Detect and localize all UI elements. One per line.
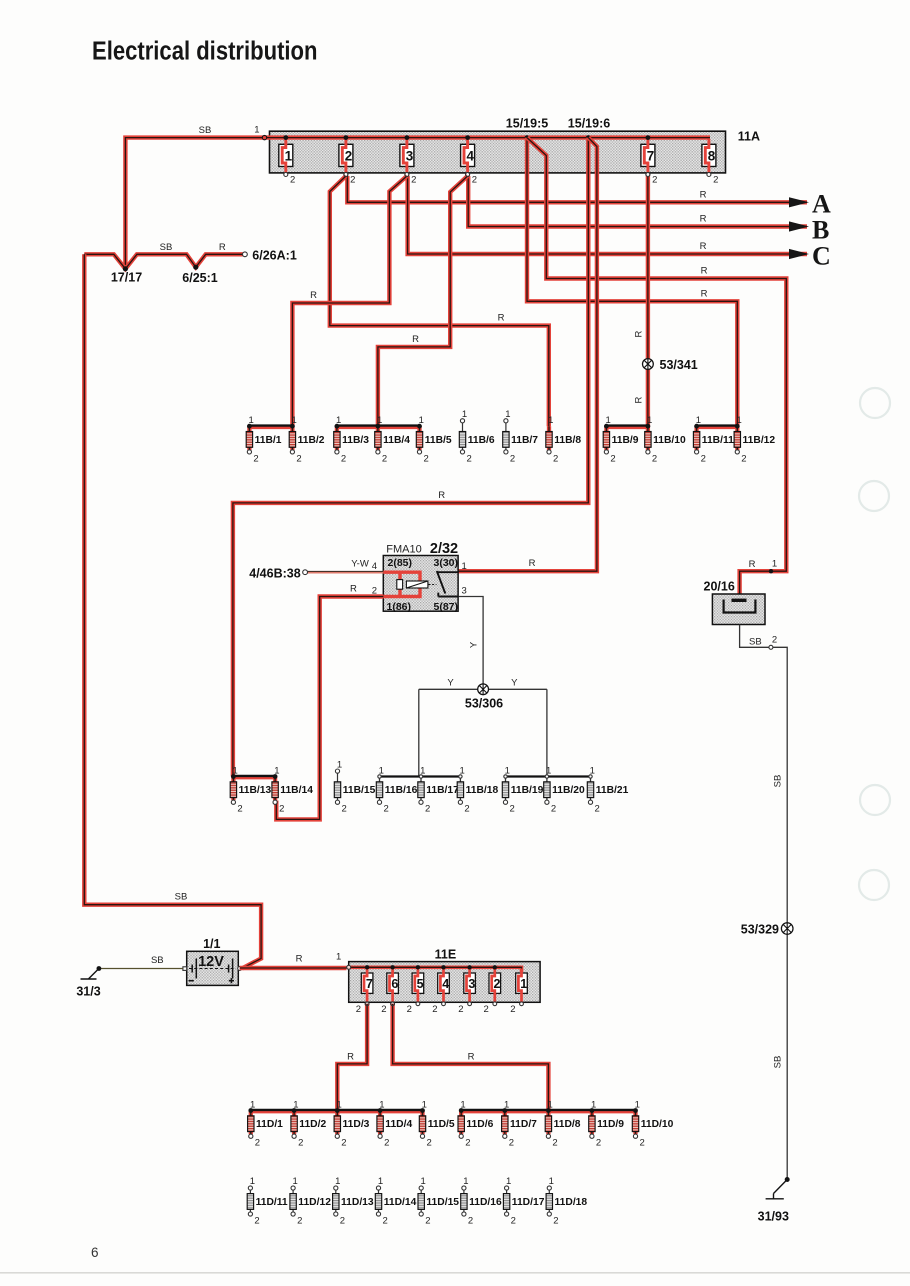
fuse 8 (11A) [702,139,718,186]
svg-text:2: 2 [384,1138,389,1149]
wire label R (wire B) [700,214,707,225]
svg-text:2: 2 [772,635,777,646]
svg-text:1: 1 [506,1176,511,1187]
connector 11B/14 [272,765,313,814]
svg-text:2: 2 [551,804,556,815]
junction at ground 31/3 [97,966,102,971]
wire label R (15/19:5 to 20/16) [701,266,708,277]
connector 11B/17 [418,765,459,814]
wire SB from 20/16 pin 2 to ground 31/93 [740,625,788,1180]
svg-text:2: 2 [467,453,472,464]
wire label R (to 6/26A:1) [219,242,226,253]
svg-text:1: 1 [292,1176,297,1187]
pin 2 circle of fuse 2 (11A) [344,173,348,177]
bottom scan edge line [0,1272,910,1274]
svg-text:11D/16: 11D/16 [469,1197,502,1208]
connector label A [812,190,831,219]
svg-text:11D/17: 11D/17 [512,1197,545,1208]
splice 53/341 [643,359,654,370]
fuse 1 (11E) [510,969,527,1015]
junction 11B/1 pin 1 [247,424,252,429]
connector 11B/10 [645,415,686,464]
junction 11B/3 pin 1 [335,424,340,429]
svg-text:SB: SB [749,636,762,647]
junction 11B/2 pin 1 [290,424,295,429]
svg-text:1: 1 [548,415,553,426]
connector 11D/7 [502,1099,538,1148]
svg-text:R: R [749,559,756,570]
junction 11D/4 pin 1 [378,1108,383,1113]
svg-text:FMA10: FMA10 [386,544,421,556]
wire label R (wire A) [700,190,707,201]
hole punch marks (scan artifact) [859,388,890,900]
wire label R (fuse 3 to 11B/2) [310,290,317,301]
connector 11B/16 [376,765,417,814]
wire label Y (vertical) [469,641,480,648]
svg-text:2: 2 [640,1138,645,1149]
wire R from 15/19:5 to 11B/12 [527,138,737,427]
label 12V [198,954,224,970]
svg-text:2: 2 [341,1138,346,1149]
component 20/16 enclosure [712,594,765,625]
junction 11D/2 pin 1 [292,1108,297,1113]
svg-text:2(85): 2(85) [388,557,413,569]
wire R from battery to fuse box 11E [240,966,347,970]
svg-text:1: 1 [549,1176,554,1187]
junction 11D/6 pin 1 [459,1108,464,1113]
svg-text:4: 4 [372,561,377,572]
junction 11D/5 pin 1 [420,1108,425,1113]
label 53/329 [741,922,779,936]
pin 1 label of 11E [336,951,341,962]
battery cell symbol [189,959,236,984]
svg-text:1: 1 [254,125,259,136]
bus wire joining 11D/6 to 11D/10 [461,1110,635,1112]
junction 11B/12 pin 1 [735,424,740,429]
wire Y splice bus 53/306 [419,688,547,690]
fuse 7 (11E) [356,969,373,1015]
svg-text:R: R [701,288,708,299]
svg-text:2: 2 [342,804,347,815]
svg-text:1: 1 [285,148,293,163]
svg-text:2: 2 [255,1138,260,1149]
pin 2 circle of fuse 7 (11E) [365,1002,369,1006]
junction 20/16 pin 1 [769,569,773,573]
wire label SB (long left wire) [175,892,188,903]
junction dot above fuse 7 (11A) [646,135,651,140]
svg-text:1: 1 [337,759,342,770]
svg-text:2: 2 [652,175,657,186]
svg-text:2: 2 [381,1004,386,1015]
arrow head C [789,249,809,259]
svg-text:11D/6: 11D/6 [466,1119,493,1130]
svg-text:4: 4 [442,977,449,991]
svg-text:R: R [634,396,645,403]
svg-text:11D/2: 11D/2 [299,1119,326,1130]
svg-text:2: 2 [427,1138,432,1149]
svg-text:2: 2 [741,453,746,464]
svg-text:53/329: 53/329 [741,922,779,936]
label 15/19:6 [568,117,610,131]
junction 11D/7 pin 1 [502,1108,507,1113]
junction at ground 31/93 [785,1177,790,1182]
connector label C [812,242,831,271]
pin 2 circle of 20/16 [769,645,773,649]
svg-text:SB: SB [199,125,212,136]
relay coil element symbol [397,580,428,590]
svg-text:1(86): 1(86) [387,601,412,613]
label 6/25:1 [182,271,217,285]
pin 1 terminal circle of 11E [347,965,351,969]
connector 11D/14 [375,1176,416,1226]
wire R from fuse 2 to connector A [347,176,807,202]
svg-text:12V: 12V [198,954,224,970]
pin 2 circle of fuse 4 (11A) [466,173,470,177]
svg-text:2: 2 [510,1004,515,1015]
relay terminal label 1(86) [387,601,412,613]
relay pin 1 number [462,561,467,572]
relay mechanical link (dashed) [429,584,437,586]
connector 11D/12 [290,1176,331,1226]
fuse 4 (11E) [432,969,449,1015]
wire Y from 53/306 to 11B/17 [418,689,420,776]
svg-text:11D/4: 11D/4 [385,1119,412,1130]
fuse box 11A enclosure [270,131,726,173]
svg-text:2: 2 [510,804,515,815]
connector 11D/15 [418,1176,459,1226]
pin 1 terminal circle of 11A [262,135,266,139]
junction dot above fuse 2 (11E) [493,965,497,969]
wire R from fuse 4 to connector B [468,176,807,227]
svg-text:1: 1 [520,977,527,991]
connector 11B/9 [603,415,639,464]
wire Y from 53/306 to 11B/20 [546,689,548,776]
connector 11D/5 [419,1099,455,1148]
terminal circle 6/26A:1 [243,252,248,257]
svg-text:SB: SB [773,775,784,788]
wire label R (20/16 pin 1) [749,559,756,570]
junction dot above fuse 5 (11E) [416,965,420,969]
crimp joint 17/17 [123,266,128,271]
svg-text:53/306: 53/306 [465,697,503,711]
svg-text:3(30): 3(30) [434,557,459,569]
connector 11B/1 [246,415,282,464]
splice 53/329 [781,923,793,935]
svg-text:SB: SB [773,1056,784,1069]
connector 11B/6 [459,409,495,464]
battery negative terminal [183,967,187,971]
connector 11B/18 [457,765,498,814]
svg-text:31/93: 31/93 [758,1210,789,1224]
connector 11D/8 [545,1099,581,1148]
svg-text:R: R [310,290,317,301]
wire label Y (right of splice) [511,677,518,688]
svg-text:2: 2 [237,804,242,815]
svg-text:R: R [529,558,536,569]
crimp joint 6/25:1 [193,265,198,270]
label 11A [738,130,760,144]
connector 11D/17 [503,1176,544,1226]
pin 1 label of 11A [254,125,259,136]
svg-text:2: 2 [425,1216,430,1227]
svg-text:2: 2 [296,453,301,464]
svg-text:11D/5: 11D/5 [428,1119,455,1130]
svg-text:2: 2 [468,1216,473,1227]
pin 1 circle 11B/19 [504,775,507,778]
svg-text:11B/7: 11B/7 [511,435,538,446]
junction 11B/11 pin 1 [694,424,699,429]
svg-text:20/16: 20/16 [704,580,735,594]
svg-text:7: 7 [366,977,373,991]
connector 11B/20 [544,765,585,814]
svg-text:4: 4 [466,148,474,163]
svg-text:2: 2 [254,1216,259,1227]
wire label SB (top) [199,125,212,136]
bus wire joining 11B/13 and 11B/14 [233,776,275,778]
bus wire joining 11B/3 to 11B/5 [337,426,420,428]
arrow head B [789,221,809,231]
pin 1 circle 11B/20 [545,775,548,778]
wire R from fuse 3 to connector C [408,176,807,254]
svg-text:53/341: 53/341 [660,358,698,372]
junction 11B/4 pin 1 [376,424,381,429]
fuse box 11E enclosure [349,962,540,1003]
svg-text:2: 2 [511,1216,516,1227]
svg-text:2: 2 [411,175,416,186]
svg-text:11D/13: 11D/13 [341,1197,374,1208]
svg-text:R: R [700,214,707,225]
junction dot above fuse 2 (11A) [344,135,349,140]
wire Y-W from 4/46B:38 to relay pin 4 [307,570,383,573]
title text [92,38,318,66]
svg-text:1: 1 [335,1176,340,1187]
wire label SB (right wire lower) [773,1056,784,1069]
wire Y from relay pin 3 to splice 53/306 [459,597,484,690]
junction 11B/9 pin 1 [604,424,609,429]
svg-text:11D/10: 11D/10 [641,1119,674,1130]
connector 11B/7 [503,409,539,464]
svg-text:2: 2 [298,1138,303,1149]
svg-text:R: R [468,1051,475,1062]
svg-text:2: 2 [465,1138,470,1149]
pin 2 circle of fuse 6 (11E) [391,1002,395,1006]
junction dot above fuse 6 (11E) [390,965,394,969]
splice 53/306 [478,684,489,695]
wire SB from 17/17 down to battery positive [84,254,261,968]
svg-text:2: 2 [432,1004,437,1015]
wire label R (relay pin 2) [350,583,357,594]
svg-text:11B/21: 11B/21 [596,785,629,796]
relay terminal label 2(85) [388,557,413,569]
wire R from fuse 3 to 11B/2 [292,176,407,426]
connector 11B/5 [416,415,452,464]
wire R from fuse 2 to 11B/8 [330,176,549,426]
svg-text:2: 2 [424,453,429,464]
junction dot above fuse 4 (11E) [441,965,445,969]
wire label R (fuse 7 upper) [634,330,645,337]
pin 1 circle 11B/21 [589,775,592,778]
svg-text:1: 1 [378,1176,383,1187]
svg-text:1: 1 [772,559,777,570]
svg-text:1: 1 [462,409,467,420]
svg-text:11B/6: 11B/6 [468,435,495,446]
junction dot above fuse 1 (11A) [283,135,288,140]
svg-text:2: 2 [384,804,389,815]
fuse 5 (11E) [407,969,424,1015]
svg-text:6/26A:1: 6/26A:1 [252,249,297,263]
ground symbol 31/3 [81,969,99,980]
svg-text:R: R [350,583,357,594]
wire label R (fuse 4 to 11B/4) [412,334,419,345]
svg-text:11D/7: 11D/7 [510,1119,537,1130]
svg-text:R: R [634,330,645,337]
svg-text:15/19:5: 15/19:5 [506,117,548,131]
svg-text:2: 2 [652,453,657,464]
fuse 1 (11A) [279,139,295,186]
svg-text:2: 2 [701,453,706,464]
svg-text:2: 2 [407,1004,412,1015]
svg-text:R: R [700,241,707,252]
svg-text:R: R [700,190,707,201]
svg-text:2: 2 [552,1138,557,1149]
svg-text:1: 1 [505,409,510,420]
svg-text:A: A [812,190,831,219]
wire R from 11E fuse 6 to 11D/8 [393,1004,549,1111]
wire label SB (crimp span) [160,242,173,253]
connector 11B/19 [502,765,543,814]
bus wire joining 11B/16 to 11B/18 [380,775,461,777]
svg-text:11B/3: 11B/3 [342,435,369,446]
svg-text:2: 2 [596,1138,601,1149]
page number 6 [91,1245,99,1260]
svg-text:11D/1: 11D/1 [256,1119,283,1130]
junction 11B/14 pin 1 [273,774,278,779]
wire R from 15/19:6 to relay 2/32 pin 1 [459,138,597,572]
label 20/16 [704,580,735,594]
svg-text:2: 2 [340,1216,345,1227]
wire label R (battery feed) [296,953,303,964]
svg-text:2: 2 [297,1216,302,1227]
connector 11B/8 [546,415,582,464]
battery 1/1 enclosure [187,951,239,985]
svg-text:15/19:6: 15/19:6 [568,117,610,131]
fuse 7 (11A) [641,139,657,186]
connector 11D/16 [461,1176,502,1226]
svg-text:11B/2: 11B/2 [298,435,325,446]
svg-text:2: 2 [484,1004,489,1015]
pin 1 circle 11B/16 [378,775,381,778]
svg-text:11B/5: 11B/5 [425,435,452,446]
connector 11B/2 [289,415,325,464]
wire label R (relay 2/32 pin 1) [529,558,536,569]
wire R from fuse 4 to 11B/4 [378,176,468,426]
wire R from fuse 7 to 11B/10 [646,176,650,426]
fuse 4 (11A) [461,139,477,186]
svg-text:2: 2 [279,804,284,815]
connector 11D/10 [632,1099,673,1148]
bus wire joining 11B/9 and 11B/10 [606,426,648,428]
svg-text:11D/11: 11D/11 [256,1197,288,1208]
relay 2/32 enclosure [383,556,458,612]
junction 11B/5 pin 1 [417,424,422,429]
wire SB/R through crimps 17/17 and 6/25:1 to terminal 6/26A:1 [84,254,243,268]
svg-text:Y: Y [447,677,454,688]
battery positive terminal [238,966,242,970]
fuse 2 (11E) [484,969,501,1015]
fuse 3 (11E) [458,969,475,1015]
svg-text:11B/20: 11B/20 [552,785,585,796]
wire label SB (20/16 pin 2) [749,636,762,647]
svg-text:2: 2 [350,175,355,186]
svg-text:3: 3 [462,585,467,596]
wire R from 15/19:6 to 11B/13 [233,138,588,777]
connector 11B/4 [375,415,411,464]
wire label R (11E fuse 7) [347,1051,354,1062]
connector 11D/2 [291,1099,327,1148]
svg-text:2: 2 [464,804,469,815]
svg-text:11D/3: 11D/3 [343,1119,370,1130]
svg-text:11B/1: 11B/1 [255,435,282,446]
svg-text:2: 2 [341,453,346,464]
svg-text:2: 2 [290,175,295,186]
label FMA10 [386,544,421,556]
pin 2 circle of fuse 7 (11A) [646,173,650,177]
connector 11D/13 [333,1176,374,1226]
arrow head A [789,197,809,207]
svg-text:1: 1 [250,1176,255,1187]
label 15/19:5 [506,117,548,131]
svg-text:3: 3 [468,977,475,991]
junction dot above fuse 7 (11E) [365,965,369,969]
ground symbol 31/93 [766,1180,788,1199]
connector 11B/11 [693,415,734,464]
svg-text:R: R [219,242,226,253]
svg-text:5: 5 [417,977,424,991]
wire label SB (right wire upper) [773,775,784,788]
svg-text:2: 2 [509,1138,514,1149]
wire SB from ground 31/3 to battery [100,968,183,970]
svg-text:3: 3 [406,148,414,163]
junction 11D/3 pin 1 [335,1108,340,1113]
svg-text:B: B [812,216,829,245]
wire label R (15/19:6 to 11B/13) [438,490,445,501]
svg-text:11D/9: 11D/9 [597,1119,624,1130]
pin 1 circle 11B/17 [419,775,422,778]
relay terminal label 5(87) [434,601,459,613]
relay terminal label 3(30) [434,557,459,569]
svg-text:R: R [701,266,708,277]
svg-text:11B/11: 11B/11 [702,435,734,446]
connector label B [812,216,829,245]
label 31/3 [76,985,100,999]
wire SB from 11A pin 1 to 17/17 [125,138,264,269]
connector 11B/21 [587,765,628,814]
svg-text:6: 6 [91,1245,99,1260]
bus wire joining 11B/1 and 11B/2 [249,426,292,428]
bus wire joining 11D/1 to 11D/5 [251,1110,423,1112]
svg-text:R: R [296,953,303,964]
svg-text:11B/10: 11B/10 [653,435,686,446]
connector 11B/12 [734,415,775,464]
junction 11D/1 pin 1 [248,1108,253,1113]
svg-text:11D/12: 11D/12 [298,1197,331,1208]
svg-text:8: 8 [708,148,716,163]
relay pin 4 number [372,561,377,572]
bus wire joining 11B/19 to 11B/21 [506,775,591,777]
wire label R (fuse 2 to 11B/8) [498,313,505,324]
pin 1 circle 11B/18 [459,775,462,778]
svg-text:R: R [498,313,505,324]
